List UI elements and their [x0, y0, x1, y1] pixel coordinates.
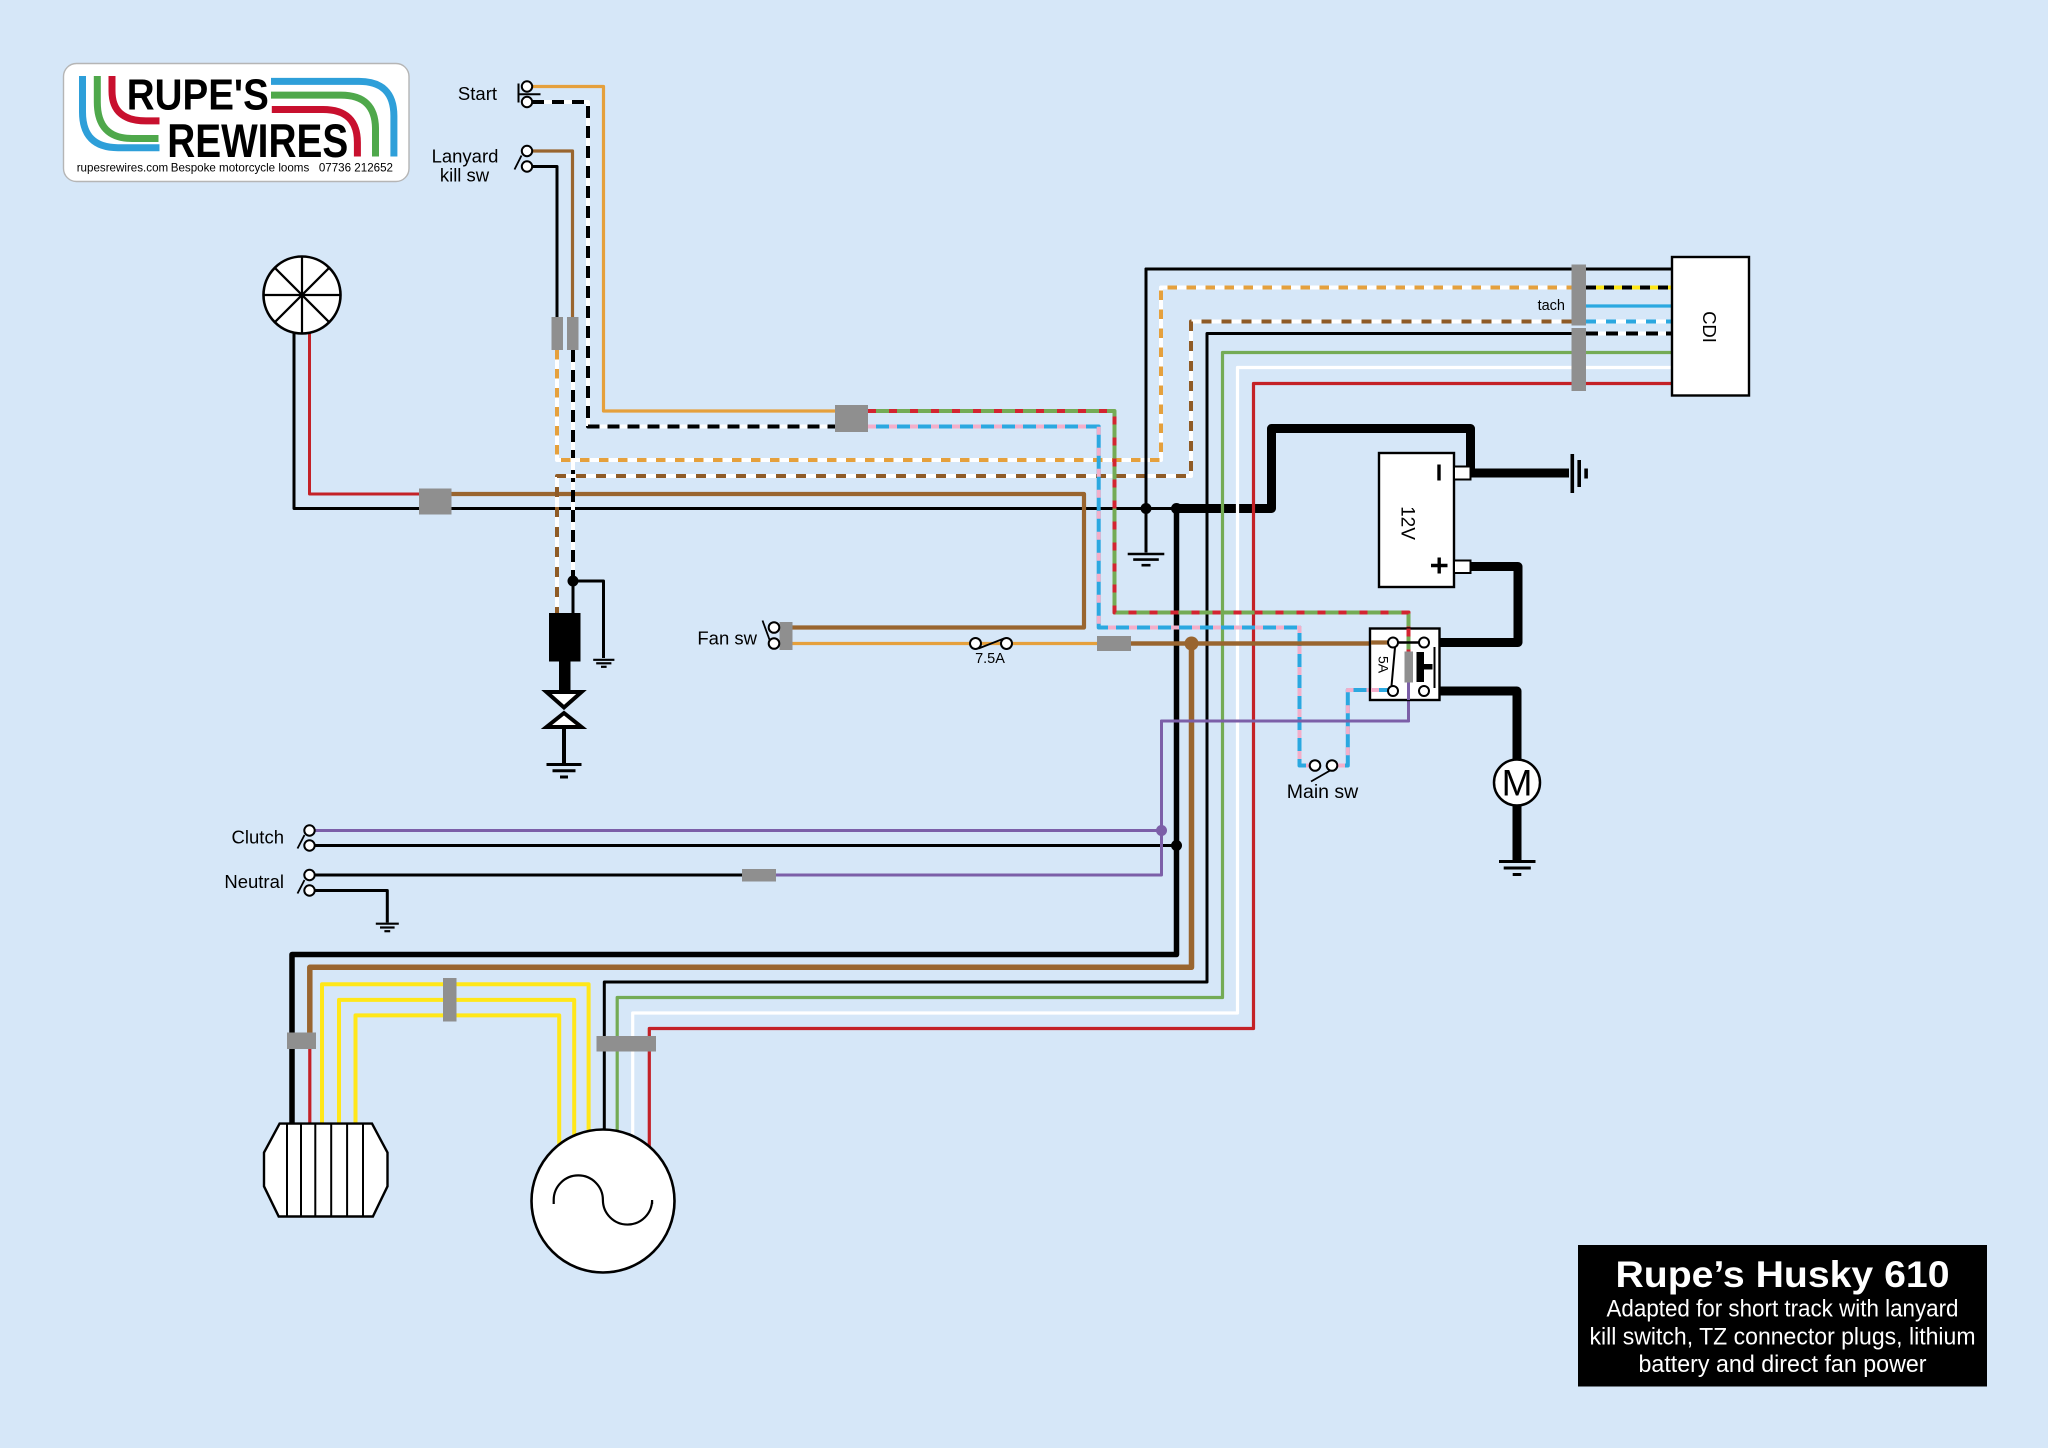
wire: neutral black [315, 874, 742, 877]
wire: fuse connector brown overlay [1131, 641, 1390, 645]
title block [1578, 1245, 1987, 1387]
connector: regulator plug [287, 1033, 316, 1050]
neutral switch [224, 870, 314, 896]
svg-text:07736 212652: 07736 212652 [319, 162, 393, 175]
wire: clutch black [315, 844, 1177, 847]
wire: blue/pink dashed (main switch) [868, 427, 1310, 766]
svg-text:Rupe’s Husky 610: Rupe’s Husky 610 [1616, 1254, 1950, 1295]
alternator [532, 1130, 675, 1273]
svg-text:tach: tach [1538, 298, 1565, 314]
battery 12V [1379, 453, 1471, 587]
wire: yellow 2 [339, 1000, 574, 1152]
svg-text:Adapted for short track with l: Adapted for short track with lanyard [1607, 1296, 1959, 1323]
svg-text:Start: Start [458, 83, 497, 104]
wire: yellow 3 [356, 1015, 560, 1158]
wire: brown/white dashed (CDI to coil) [557, 322, 1572, 615]
connector: fan plug [419, 489, 452, 515]
wire: CDI black 2 to alternator [604, 334, 1586, 1161]
wire: main fuse purple overlay [1162, 681, 1409, 831]
svg-text:kill sw: kill sw [440, 165, 490, 186]
connector: lanyard brown bar [567, 317, 579, 350]
fuse 7.5A [970, 638, 1012, 667]
starter motor M [1494, 760, 1540, 806]
fan symbol [264, 257, 341, 334]
start switch [458, 81, 541, 107]
wire: CDI blue/white dashed [1586, 320, 1673, 324]
wire: neutral purple [776, 831, 1162, 876]
connector: yellow bar [443, 978, 457, 1022]
node: ground junction [1141, 503, 1152, 514]
svg-text:rupesrewires.com: rupesrewires.com [77, 162, 169, 175]
wire: lanyard black [532, 167, 557, 319]
wire: start black/white dashed [532, 102, 835, 427]
svg-text:7.5A: 7.5A [975, 651, 1005, 667]
wire: lanyard brown [532, 151, 573, 318]
main switch [1287, 760, 1359, 803]
wire: fan black [294, 333, 1177, 509]
node: clutch black junction [1171, 840, 1182, 851]
svg-text:Bespoke motorcycle looms: Bespoke motorcycle looms [171, 162, 310, 175]
ignition coil [549, 613, 581, 662]
ground: neutral [376, 924, 399, 932]
node: black runner junction [1171, 503, 1182, 514]
ground: coil [593, 660, 614, 667]
node: brown junction [1185, 637, 1199, 651]
lanyard kill switch [432, 146, 533, 186]
svg-text:M: M [1502, 763, 1533, 804]
svg-text:RUPE'S: RUPE'S [127, 71, 269, 120]
wire: battery positive to relay [1429, 567, 1518, 643]
wire: motor to ground [1513, 800, 1522, 860]
wire: battery negative to ground [1454, 469, 1569, 478]
svg-text:Neutral: Neutral [224, 871, 284, 892]
ground: motor [1499, 862, 1536, 875]
wire: lanyard black/white dashed to coil junction [571, 350, 575, 581]
wire: tach blue [1586, 304, 1673, 307]
svg-text:Fan sw: Fan sw [697, 628, 757, 649]
wire: CDI white to alternator [633, 368, 1673, 1169]
connector: alternator plug [597, 1036, 657, 1052]
svg-text:Clutch: Clutch [232, 827, 284, 848]
connector: start/kill mid plug [835, 405, 868, 432]
wire: orange/white dashed (kill to CDI) [557, 288, 1572, 461]
wire: thick black runner (battery negative bus to regulator) [292, 509, 1177, 1125]
svg-text:Lanyard: Lanyard [432, 146, 499, 167]
wire: fuse connector brown to relay [1131, 641, 1390, 645]
svg-text:CDI: CDI [1699, 311, 1720, 343]
svg-text:battery and direct fan power: battery and direct fan power [1639, 1351, 1927, 1378]
wire: neutral ground branch [315, 891, 387, 923]
svg-text:Main sw: Main sw [1287, 781, 1359, 803]
wire: green/red dashed (start to relay fuse) [868, 411, 1409, 652]
clutch switch [232, 825, 315, 850]
ground: center black [1128, 554, 1165, 565]
wire: CDI black/white dashed [1586, 332, 1673, 336]
wire: battery negative cable loop [1177, 429, 1471, 509]
svg-text:REWIRES: REWIRES [167, 114, 348, 167]
wire: fan red [310, 331, 421, 494]
connector: CDI bar 2 [1572, 328, 1587, 391]
ground: battery negative (rotated right) [1572, 454, 1586, 493]
wire: fan switch orange to fuse [793, 642, 1098, 645]
wire: main fuse purple [1162, 681, 1409, 831]
wire: start switch orange [532, 87, 835, 412]
wire: regulator red [308, 1048, 311, 1124]
node: coil junction [568, 576, 579, 587]
wire: CDI black 1 overlay [1146, 269, 1673, 553]
wire: CDI black/yellow dashed [1586, 286, 1673, 290]
wire: coil ground branch [573, 581, 604, 658]
svg-text:kill switch, TZ connector plug: kill switch, TZ connector plugs, lithium [1590, 1324, 1976, 1351]
connector: lanyard black bar [552, 317, 564, 350]
wire: fan connector brown to fan switch [451, 494, 1084, 628]
node: purple junction [1156, 825, 1167, 836]
wire: clutch purple [315, 829, 1162, 832]
connector: neutral plug [742, 869, 776, 882]
connector: CDI bar 1 [1572, 265, 1587, 326]
wire: CDI green to alternator [617, 353, 1673, 1165]
wire: thick brown runner (fan power bus to regulator connector) [310, 644, 1192, 1035]
regulator rectifier [264, 1124, 388, 1217]
relay / main fuse 5A [1370, 629, 1440, 701]
wire: CDI black 1 to center ground [1146, 269, 1673, 553]
connector: fan fuse plug [1097, 636, 1131, 651]
wire: yellow 1 [322, 984, 589, 1145]
svg-text:5A: 5A [1376, 656, 1392, 674]
logo: Rupe's Rewires [64, 64, 410, 182]
wire: coil junction black [572, 581, 575, 614]
ground: spark plug [547, 765, 582, 778]
wire: CDI red to alternator [649, 384, 1673, 1173]
CDI unit [1538, 257, 1749, 396]
svg-text:12V: 12V [1397, 506, 1418, 540]
wire: relay to starter motor [1429, 691, 1517, 765]
spark plug [547, 662, 582, 764]
fan switch [697, 621, 779, 649]
connector: fan switch plug [780, 622, 793, 650]
